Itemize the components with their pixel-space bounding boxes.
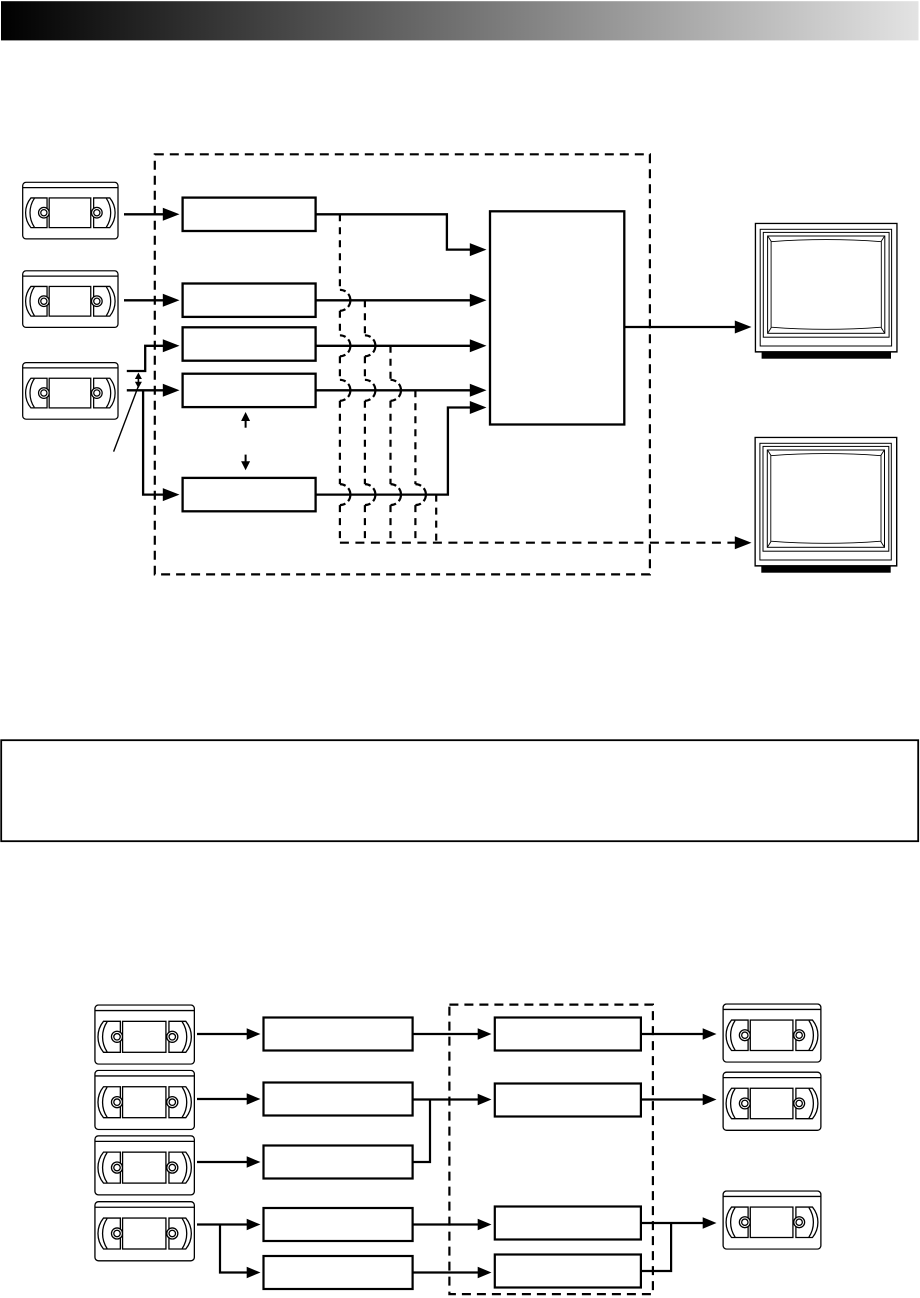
- wire LC to C1: [197, 1156, 261, 1167]
- box A2: [495, 1018, 641, 1051]
- wire F1 to U1 (stepped): [316, 214, 487, 256]
- wire A2 to cassette R1: [641, 1028, 717, 1039]
- dashed bus line L2 with hops: [365, 300, 376, 542]
- wire F3 to U1: [316, 339, 487, 352]
- box B2: [495, 1084, 641, 1117]
- wire LA to A1: [197, 1028, 261, 1039]
- TV monitor 2: [755, 437, 897, 572]
- wire LD to D1: [197, 1219, 261, 1230]
- box A1: [264, 1018, 413, 1051]
- box D2: [495, 1207, 641, 1240]
- cassette LC (source C): [95, 1136, 194, 1195]
- wire B1 to B2: [413, 1094, 492, 1105]
- dashed bus line L3 with hops: [391, 346, 402, 543]
- note box (middle): [1, 740, 918, 841]
- wire V1 to F1: [124, 208, 180, 221]
- wire V3 to F3 (stepped): [127, 339, 180, 371]
- cassette R1 (record tape 1): [723, 1004, 821, 1062]
- cassette R3 (record tape 3): [723, 1191, 821, 1249]
- wire C1 merge up to B wire: [413, 1100, 430, 1163]
- TV monitor 1: [755, 223, 897, 358]
- dashed bus line L5: [435, 495, 437, 543]
- wire F4 to U1: [316, 384, 487, 397]
- big box U1 (mixer): [490, 211, 624, 424]
- wire V2 to F2: [124, 294, 180, 307]
- wire V3 to F4: [127, 384, 180, 397]
- box F1: [183, 198, 316, 231]
- box F4: [183, 374, 316, 407]
- wire U1 to TV1: [624, 321, 751, 334]
- box D1: [264, 1208, 413, 1241]
- wire LB to B1: [197, 1093, 261, 1104]
- cassette LA (source A): [95, 1005, 194, 1064]
- box F5: [183, 478, 316, 511]
- box B1: [264, 1083, 413, 1116]
- box E2: [495, 1255, 641, 1288]
- dashed enclosure (editing deck): [155, 154, 650, 574]
- cassette LD (source D): [95, 1202, 194, 1261]
- wire E2 merge up to D2 wire: [641, 1223, 671, 1271]
- wire B2 to cassette R2: [641, 1094, 717, 1105]
- dashed bus line L1 with hops: [340, 214, 351, 542]
- wire E1 to E2: [413, 1267, 492, 1278]
- cassette V3 (source tape 3): [23, 363, 118, 420]
- wire D1 to D2: [413, 1219, 492, 1230]
- box F2: [183, 284, 316, 317]
- box C1: [264, 1146, 413, 1179]
- dashed bus line L4 with hop: [415, 390, 426, 542]
- wire branch to F5: [143, 390, 179, 501]
- dashed wire bus to TV2: [340, 536, 752, 549]
- wire A1 to A2: [413, 1028, 492, 1039]
- double arrow between V3 outputs: [135, 373, 142, 389]
- cassette LB (source B): [95, 1070, 194, 1129]
- wire F5 to U1 (stepped up): [316, 401, 487, 495]
- diagonal leader line: [114, 387, 139, 452]
- box E1: [264, 1256, 413, 1289]
- cassette R2 (record tape 2): [723, 1072, 821, 1130]
- up arrow between F4 and F5: [241, 412, 250, 428]
- cassette V1 (source tape 1): [23, 182, 118, 239]
- down arrow between F4 and F5: [241, 455, 250, 471]
- cassette V2 (source tape 2): [23, 271, 118, 328]
- wire D2 to cassette R3: [641, 1217, 717, 1228]
- wire LD branch to E1: [220, 1225, 261, 1279]
- dashed enclosure (recording deck): [449, 1005, 653, 1295]
- gradient title bar: [1, 1, 919, 40]
- wire F2 to U1: [316, 294, 487, 307]
- box F3: [183, 327, 316, 360]
